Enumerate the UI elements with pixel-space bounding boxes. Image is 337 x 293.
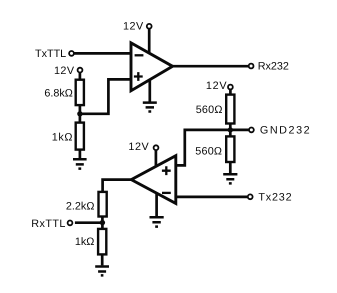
svg-text:2.2kΩ: 2.2kΩ [66,200,94,212]
svg-text:TxTTL: TxTTL [35,48,66,60]
svg-text:1kΩ: 1kΩ [52,132,73,144]
svg-text:560Ω: 560Ω [195,145,222,157]
svg-text:6.8kΩ: 6.8kΩ [44,87,72,99]
svg-text:12V: 12V [206,80,228,92]
svg-text:12V: 12V [54,65,75,77]
svg-text:Rx232: Rx232 [258,60,289,72]
svg-text:1kΩ: 1kΩ [75,236,94,248]
svg-text:Tx232: Tx232 [258,192,292,204]
svg-text:RxTTL: RxTTL [31,218,66,230]
svg-text:560Ω: 560Ω [196,104,223,116]
svg-text:GND232: GND232 [260,125,311,137]
svg-text:12V: 12V [128,141,149,153]
svg-text:12V: 12V [123,20,144,32]
